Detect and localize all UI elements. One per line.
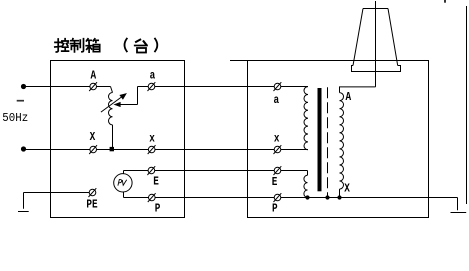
svg-text:X: X (344, 183, 350, 196)
控 (55, 39, 69, 52)
svg-text:A: A (91, 69, 97, 82)
制 (71, 39, 84, 52)
terminal PE (89, 188, 97, 197)
svg-text:x: x (274, 133, 280, 146)
terminal a2 (274, 82, 282, 91)
terminal A (89, 82, 97, 91)
ground right (451, 198, 467, 213)
wire: elbow into variac coil (111, 87, 113, 93)
wire: X bus to transformer primary bottom (24, 149, 309, 151)
control box outline (51, 61, 185, 218)
frame tick top (444, 0, 446, 3)
terminal E (147, 166, 155, 175)
svg-text:a: a (150, 69, 156, 82)
secondary winding (340, 93, 344, 189)
箱 (86, 39, 100, 52)
bushing center conductor (375, 1, 377, 87)
） (155, 39, 157, 52)
terminal E2 (274, 166, 282, 175)
terminal P (148, 193, 156, 202)
wire: variac coil bottom to X bus (112, 125, 114, 150)
junction: variac bottom on X bus (110, 147, 114, 151)
wire: wiper to terminal a and transformer primary (138, 86, 309, 88)
variac wiper tap arrow (119, 87, 138, 105)
core dashed line (327, 87, 329, 197)
core bar (318, 88, 322, 191)
svg-text:P: P (272, 202, 278, 215)
ground PE (18, 193, 29, 212)
AC source terminal top (21, 84, 26, 89)
secondary winding bottom lead (339, 189, 341, 197)
secondary winding top lead (340, 87, 376, 93)
junction: secondary X on bus (337, 195, 341, 199)
wire: top supply to terminal A and variac (24, 86, 111, 88)
bushing trapezoid (353, 9, 398, 66)
wire: P / ground bus (124, 197, 458, 199)
junction: dashed line on bus (325, 195, 329, 199)
terminal x (148, 145, 156, 154)
junction: instrument winding on bus (305, 195, 309, 199)
svg-text:50Hz: 50Hz (2, 113, 28, 126)
svg-text:A: A (346, 91, 352, 104)
svg-text:PE: PE (86, 198, 98, 211)
AC source terminal bottom (21, 146, 26, 151)
AC symbol ~ (17, 100, 24, 102)
台 (135, 40, 147, 53)
transformer tank outline (248, 61, 429, 218)
frame line right (466, 6, 468, 204)
svg-text:x: x (149, 133, 155, 146)
wire: E measuring wire (124, 170, 308, 172)
variac adjust arrow (101, 97, 122, 113)
terminal x2 (274, 145, 282, 154)
wire: PE wire (24, 192, 93, 194)
bushing flange (352, 66, 401, 72)
voltmeter PV (123, 171, 125, 198)
svg-text:E: E (153, 175, 159, 188)
terminal P2 (274, 193, 282, 202)
instrument winding (304, 175, 308, 197)
terminal a (148, 82, 156, 91)
primary winding (304, 87, 308, 150)
svg-text:P: P (155, 202, 161, 215)
variac coil (109, 93, 113, 125)
title 控制箱（台） (55, 39, 158, 53)
tank top edge overhang (230, 60, 248, 62)
svg-text:X: X (90, 131, 96, 144)
instrument winding lead (307, 171, 309, 176)
svg-text:a: a (274, 94, 280, 107)
svg-text:E: E (272, 176, 278, 189)
（ (125, 39, 127, 52)
terminal X (89, 145, 97, 154)
